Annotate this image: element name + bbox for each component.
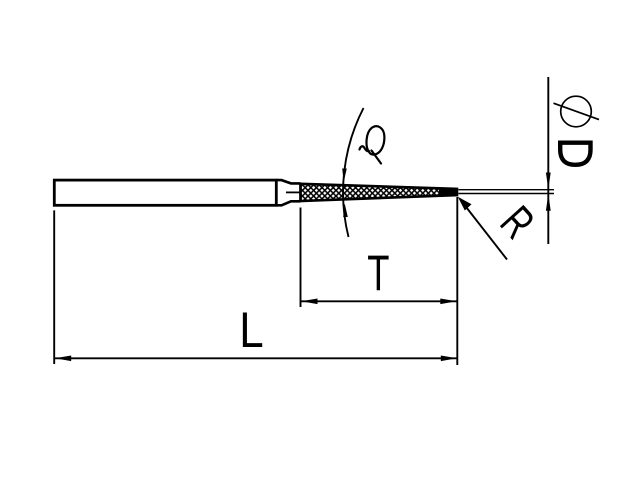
tapered diamond-coated section (hatched)	[301, 184, 458, 201]
taper tip solid dark area	[439, 188, 457, 197]
T extension line (left)	[300, 208, 302, 308]
shank body	[54, 180, 276, 205]
neck centerline segment	[286, 191, 301, 193]
L extension line (left)	[53, 210, 55, 364]
R leader line	[461, 201, 507, 260]
alpha arc arrow upper (points down)	[342, 169, 347, 183]
taper left boundary	[299, 183, 301, 202]
D dimension line (vertical)	[547, 77, 549, 244]
svg-text:L: L	[239, 302, 263, 359]
tip extension line (bottom) for D dimension	[459, 193, 555, 195]
L dimension line	[54, 357, 458, 359]
L arrow right	[441, 356, 457, 362]
tip extension line (top) for D dimension	[459, 189, 555, 191]
diameter symbol circle	[561, 96, 592, 127]
angle arc for alpha	[343, 108, 363, 237]
alpha arc arrow lower (points up)	[343, 204, 348, 218]
right extension line (tip)	[456, 197, 458, 365]
neck transition outline	[276, 180, 300, 205]
D dimension arrow upper (points down)	[546, 173, 551, 190]
L arrow left	[55, 356, 71, 362]
svg-text:T: T	[367, 245, 389, 301]
T arrow left	[301, 299, 317, 305]
label alpha (script)	[360, 126, 385, 163]
T arrow right	[440, 299, 456, 305]
T dimension line	[301, 300, 458, 302]
diameter symbol slash	[554, 103, 600, 119]
label D (rotated 90deg)	[560, 143, 590, 165]
D dimension arrow lower (points up)	[546, 194, 551, 211]
R leader arrowhead	[458, 197, 472, 211]
